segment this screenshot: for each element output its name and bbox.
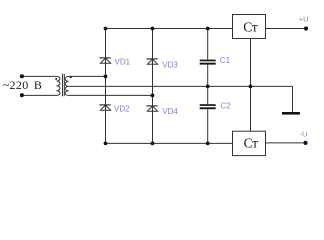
wire mid bus center tap xyxy=(69,85,251,87)
svg-text:C2: C2 xyxy=(220,102,231,111)
wire primary top lead xyxy=(22,75,57,77)
node bottom bus left xyxy=(104,142,108,146)
svg-text:-U: -U xyxy=(300,130,308,139)
node top bus right xyxy=(206,27,210,31)
wire ground branch vertical xyxy=(292,86,294,112)
wire primary bottom lead xyxy=(22,94,57,96)
diode VD2 xyxy=(99,104,110,106)
input terminal bottom xyxy=(20,93,24,97)
wire top bus xyxy=(106,28,233,30)
svg-text:Ст: Ст xyxy=(243,20,258,35)
node mid bus capacitor xyxy=(206,85,210,89)
node secondary top tap xyxy=(104,75,108,79)
output terminal plus xyxy=(304,26,308,30)
transformer T1 primary winding xyxy=(57,76,61,95)
output terminal minus xyxy=(303,141,307,145)
node bottom bus mid xyxy=(151,142,155,146)
wire capacitor column middle xyxy=(207,65,209,105)
svg-text:VD3: VD3 xyxy=(162,60,178,69)
wire output minus xyxy=(266,142,306,144)
node top bus mid xyxy=(151,27,155,31)
svg-text:VD1: VD1 xyxy=(115,58,131,67)
wire capacitor column lower xyxy=(207,109,209,143)
node mid bus stabilizer xyxy=(249,85,253,89)
wire capacitor column upper xyxy=(207,29,209,60)
wire between stabilizers xyxy=(250,39,252,132)
svg-text:Ст: Ст xyxy=(244,136,259,151)
secondary polarity dot xyxy=(70,76,72,78)
svg-text:+U: +U xyxy=(299,15,309,24)
primary polarity dot xyxy=(55,78,57,80)
capacitor C2 xyxy=(200,104,216,106)
wire ground branch horizontal xyxy=(251,85,293,87)
regulator box U1 xyxy=(233,15,266,39)
svg-text:~220 В: ~220 В xyxy=(3,78,43,92)
wire left diode column xyxy=(105,29,107,144)
wire secondary bottom tap xyxy=(69,94,153,96)
wire right diode column xyxy=(152,29,154,144)
ground xyxy=(282,112,300,115)
transformer core xyxy=(62,74,64,96)
wire output plus xyxy=(266,28,307,30)
node bottom bus right xyxy=(206,142,210,146)
svg-text:VD2: VD2 xyxy=(114,104,130,113)
transformer T1 secondary winding xyxy=(65,76,69,95)
wire secondary top tap xyxy=(69,75,106,77)
capacitor C1 xyxy=(200,60,216,62)
wire bottom bus xyxy=(106,142,233,144)
node secondary bottom tap xyxy=(151,94,155,98)
node top bus left xyxy=(104,27,108,31)
diode VD3 xyxy=(146,58,157,60)
input terminal top xyxy=(20,74,24,78)
diode VD4 xyxy=(146,105,157,107)
diode VD1 xyxy=(99,57,110,59)
svg-text:C1: C1 xyxy=(220,56,231,65)
regulator box U2 xyxy=(233,131,266,155)
svg-text:VD4: VD4 xyxy=(162,107,178,116)
